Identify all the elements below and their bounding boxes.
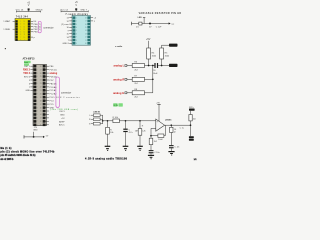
- svg-text:M IN: M IN: [114, 105, 119, 107]
- resistor R7: [132, 77, 144, 81]
- J1 right pin pads: [43, 65, 46, 126]
- wire analog L to R6: [127, 65, 132, 67]
- svg-text:pin 35 switch 0905 diode 4k b): pin 35 switch 0905 diode 4k b): [0, 154, 35, 157]
- wire speaker column: [190, 111, 192, 137]
- svg-text:11: 11: [24, 34, 26, 36]
- wire below J1: [24, 136, 44, 138]
- svg-text:VCC 16: VCC 16: [16, 9, 24, 11]
- svg-text:13: 13: [24, 29, 26, 31]
- svg-text:17: 17: [85, 21, 87, 23]
- svg-text:GND 8: GND 8: [36, 9, 43, 11]
- ground 2: [123, 146, 129, 147]
- svg-text:4: 4: [37, 76, 38, 78]
- ground 4: [148, 155, 154, 156]
- resistor R9 series: [113, 119, 120, 123]
- svg-text:(+): (+): [172, 23, 175, 25]
- J1 left pin pads: [34, 65, 37, 126]
- wire power to opamp: [158, 104, 160, 121]
- svg-text:4 JR-3 analog audio TRS/100: 4 JR-3 analog audio TRS/100: [85, 158, 128, 161]
- svg-text:C 1u: C 1u: [180, 128, 184, 130]
- ground 3: [137, 146, 143, 147]
- svg-text:7: 7: [37, 87, 38, 89]
- junction node C: [161, 65, 163, 67]
- resistor R12 feedback leg: [149, 138, 153, 144]
- svg-text:VCC 14: VCC 14: [60, 9, 68, 11]
- svg-text:10: 10: [24, 37, 26, 39]
- resistor R13 gain: [158, 134, 164, 137]
- wire inverting input: [151, 128, 156, 138]
- zobel capacitor C14: [169, 145, 174, 146]
- bus bracket U1 (magenta): [38, 21, 41, 32]
- svg-text:analog L: analog L: [114, 64, 125, 68]
- component box D1: [139, 22, 142, 25]
- wire mix to R9: [103, 120, 113, 122]
- terminal analog L: [125, 65, 127, 67]
- svg-text:ab cd 1905 b: ab cd 1905 b: [0, 159, 14, 161]
- svg-text:PB5 SCK 2 connector: PB5 SCK 2 connector: [50, 96, 80, 99]
- wire R4 bottom to node: [148, 59, 150, 66]
- svg-text:GND: GND: [25, 90, 30, 92]
- svg-text:11: 11: [40, 125, 42, 127]
- svg-text:analog R: analog R: [113, 77, 124, 81]
- resistor R11 shunt: [139, 121, 141, 129]
- svg-text:12: 12: [40, 121, 42, 123]
- resistor R17 input R: [91, 118, 94, 120]
- svg-text:16: 16: [40, 107, 42, 109]
- junction node H1: [125, 120, 127, 122]
- svg-text:analog: analog: [50, 72, 58, 75]
- U1 left pin pads: [16, 20, 18, 41]
- svg-text:21: 21: [40, 90, 42, 92]
- power flag symbol U1: [28, 8, 30, 10]
- svg-text:1 WAIT: 1 WAIT: [3, 20, 11, 23]
- svg-text:16: 16: [36, 118, 38, 120]
- wire R5 top to header: [162, 45, 169, 48]
- highlight bootloader (green): [24, 61, 31, 64]
- resistor R6: [132, 64, 144, 68]
- terminal analog G: [125, 92, 127, 94]
- capacitor C12: [149, 150, 154, 151]
- speaker terminal top: [189, 109, 195, 111]
- junction node D: [152, 78, 154, 80]
- junction node B: [152, 65, 154, 67]
- junction node F: [102, 120, 104, 122]
- svg-text:1M: 1M: [135, 130, 138, 132]
- svg-text:26: 26: [40, 73, 42, 75]
- svg-text:5: 5: [37, 80, 38, 82]
- wire R5 bottom to node: [161, 59, 163, 66]
- svg-text:1: 1: [37, 66, 38, 68]
- svg-text:74LS 244: 74LS 244: [16, 16, 29, 19]
- resistor R16 input L: [91, 114, 94, 116]
- svg-text:2: 2: [37, 69, 38, 71]
- svg-text:connector: connector: [61, 92, 71, 95]
- U1 centre pin numbers: [20, 21, 25, 41]
- stray mark: [5, 48, 6, 49]
- terminal tick left: [23, 135, 25, 138]
- junction node H2: [139, 120, 141, 122]
- svg-text:15: 15: [40, 111, 42, 113]
- wire analog R to R7: [127, 78, 132, 80]
- svg-text:8: 8: [37, 90, 38, 92]
- wire mix bus: [102, 115, 104, 124]
- svg-text:12: 12: [36, 104, 38, 106]
- svg-text:6: 6: [37, 83, 38, 85]
- resistor R8: [132, 91, 144, 95]
- svg-text:28: 28: [40, 66, 42, 68]
- svg-text:14: 14: [40, 114, 42, 116]
- resistor R14 load: [189, 115, 192, 121]
- svg-text:GND: GND: [60, 114, 65, 116]
- svg-text:4.7u: 4.7u: [129, 132, 133, 134]
- svg-text:12: 12: [85, 37, 87, 39]
- svg-text:PB1 (6): PB1 (6): [34, 26, 41, 28]
- junction node J: [170, 124, 172, 126]
- svg-text:18: 18: [85, 17, 87, 19]
- svg-text:a radio: a radio: [115, 46, 123, 48]
- wire gain to pin: [164, 125, 165, 135]
- junction node K: [190, 124, 192, 126]
- svg-text:connector: connector: [43, 26, 53, 29]
- svg-text:(2) conn: (2) conn: [61, 24, 69, 26]
- U2 left pin wire stubs: [69, 18, 72, 44]
- svg-text:19: 19: [40, 97, 42, 99]
- svg-text:11: 11: [85, 40, 87, 42]
- U2 right pin wire stubs: [91, 18, 94, 21]
- svg-text:13: 13: [36, 107, 38, 109]
- svg-text:16: 16: [24, 21, 26, 23]
- svg-text:17: 17: [40, 104, 42, 106]
- J1 centre pin numbers: [36, 66, 42, 127]
- U2 centre pin numbers: [76, 17, 87, 45]
- wire analog G to R8: [127, 92, 132, 94]
- junction node LED: [149, 23, 151, 25]
- capacitor C8 bars: [154, 63, 155, 68]
- junction node I: [150, 135, 152, 137]
- svg-text:27: 27: [40, 69, 42, 71]
- svg-text:14: 14: [36, 111, 38, 113]
- svg-text:+9V: +9V: [156, 102, 160, 104]
- highlight MIC (green): [113, 103, 117, 106]
- ground 5: [168, 151, 174, 152]
- wire R8 to bus: [145, 92, 153, 94]
- U2 right pin pads: [87, 16, 90, 44]
- arrow terminal right: [169, 22, 171, 24]
- gain network wire: [151, 135, 158, 137]
- svg-text:22: 22: [40, 87, 42, 89]
- svg-text:10uF: 10uF: [158, 139, 163, 141]
- svg-text:18: 18: [40, 100, 42, 102]
- IC U2 body: [72, 16, 91, 46]
- wire VCC rail U1: [17, 11, 41, 13]
- svg-text:AVCC: AVCC: [59, 124, 65, 127]
- svg-text:ATX-98F15: ATX-98F15: [23, 57, 36, 60]
- svg-text:17: 17: [36, 121, 38, 123]
- svg-text:23: 23: [40, 83, 42, 85]
- svg-text:AREF: AREF: [59, 120, 65, 123]
- arrow terminal right: [43, 136, 45, 138]
- resistor R4: [147, 48, 151, 59]
- svg-text:1 RMB: 1 RMB: [3, 29, 10, 31]
- svg-text:+5V: +5V: [146, 38, 151, 41]
- svg-text:14: 14: [24, 26, 26, 28]
- op-amp U3 LM386: [156, 119, 165, 131]
- svg-text:16: 16: [85, 24, 87, 26]
- svg-text:15: 15: [85, 27, 87, 29]
- svg-text:3: 3: [37, 73, 38, 75]
- svg-text:LM386: LM386: [165, 119, 172, 121]
- svg-text:GND: GND: [33, 129, 38, 131]
- resistor R5: [160, 48, 164, 59]
- wire stub up from node: [33, 132, 35, 137]
- svg-text:9: 9: [37, 94, 38, 96]
- svg-text:15: 15: [24, 24, 26, 26]
- svg-text:C .05: C .05: [174, 147, 180, 149]
- junction node A: [148, 65, 150, 67]
- wire output: [165, 124, 191, 126]
- speaker terminal bottom pair: [189, 136, 194, 138]
- pin header terminal top: [169, 44, 178, 47]
- svg-text:25: 25: [40, 76, 42, 78]
- junction node E: [33, 136, 35, 138]
- U1 right pin pads: [28, 20, 30, 41]
- svg-text:14: 14: [85, 30, 87, 32]
- wire R7 to bus: [145, 78, 153, 80]
- resistor R10 shunt: [107, 121, 109, 128]
- wire bus vertical rows: [152, 66, 154, 93]
- terminal left tick: [131, 22, 133, 26]
- svg-text:LINE IN: LINE IN: [93, 111, 100, 113]
- svg-text:10: 10: [85, 43, 87, 45]
- IC U1 body: [15, 19, 31, 41]
- svg-text:15: 15: [36, 114, 38, 116]
- svg-text:analog G: analog G: [113, 91, 124, 95]
- svg-text:C 10u: C 10u: [154, 152, 159, 154]
- svg-text:boot: boot: [24, 61, 28, 64]
- svg-text:10uF: 10uF: [153, 73, 158, 75]
- svg-text:VARIABLE RESISTOR PIN HD: VARIABLE RESISTOR PIN HD: [139, 12, 182, 15]
- resistor R18 input G: [91, 123, 94, 125]
- svg-text:PD5 (5): PD5 (5): [50, 70, 57, 72]
- junction node G2: [107, 120, 109, 122]
- U2 left pin pads: [73, 16, 76, 44]
- bus bracket J1 (magenta): [56, 77, 59, 107]
- svg-text:11: 11: [36, 100, 38, 102]
- U1 left pin wire stubs: [13, 20, 15, 22]
- power stub with bar: [143, 18, 145, 24]
- svg-text:LED: LED: [138, 17, 143, 19]
- svg-text:13: 13: [85, 33, 87, 35]
- terminal analog R: [125, 78, 127, 80]
- svg-text:10: 10: [36, 97, 38, 99]
- U1 right pin wire stubs: [31, 21, 34, 37]
- svg-text:INT0 4: INT0 4: [24, 76, 31, 78]
- svg-text:OSC1: OSC1: [59, 111, 65, 113]
- svg-text:L: L: [89, 115, 90, 117]
- svg-text:12: 12: [24, 32, 26, 34]
- wire +5V drop: [148, 41, 150, 48]
- svg-text:C 1uF: C 1uF: [156, 26, 162, 28]
- power flag symbol U2: [75, 8, 77, 10]
- svg-text:20: 20: [40, 94, 42, 96]
- wire LED chain: [132, 23, 169, 25]
- svg-text:GND 8: GND 8: [62, 43, 69, 45]
- IC J1 body: [33, 64, 47, 125]
- capacitor C11 shunt: [125, 121, 127, 129]
- wire R9 to opamp: [119, 120, 155, 122]
- pin header terminal bottom: [169, 64, 178, 67]
- J1 right pin wire stubs: [46, 66, 49, 125]
- ground 1: [105, 146, 111, 147]
- J1 left pin wire stubs: [30, 66, 33, 90]
- zobel resistor R15: [170, 125, 172, 127]
- svg-text:+5V: +5V: [61, 118, 65, 120]
- svg-text:GND 7: GND 7: [80, 9, 87, 11]
- wire C8 to header: [158, 65, 169, 67]
- wire VCC rail U2: [61, 10, 88, 12]
- svg-text:24: 24: [40, 80, 42, 82]
- svg-text:TXD 3: TXD 3: [23, 72, 30, 75]
- svg-text:13: 13: [40, 118, 42, 120]
- wire R6 to node row1: [145, 65, 156, 67]
